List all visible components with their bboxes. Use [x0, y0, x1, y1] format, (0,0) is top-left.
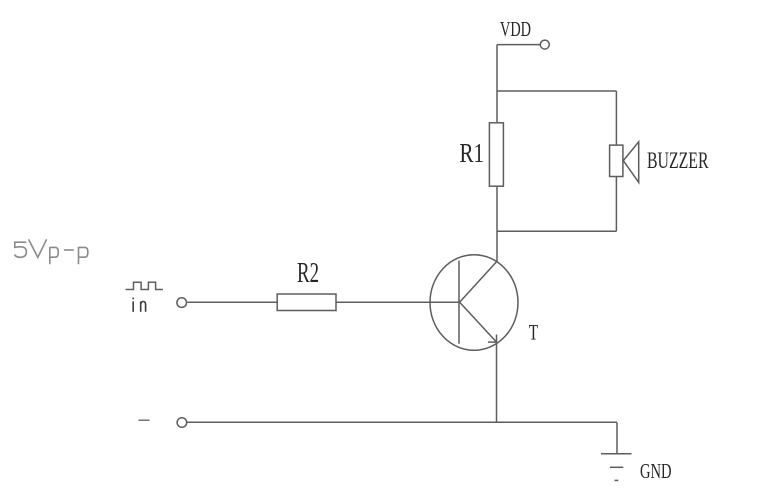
wire top rail — [497, 90, 616, 92]
wire bottom rail of parallel section — [497, 230, 616, 232]
wire R1 bottom to collector — [496, 186, 498, 262]
wire R2 to base — [336, 301, 459, 303]
svg-text:GND: GND — [640, 459, 672, 483]
svg-text:R2: R2 — [297, 258, 319, 289]
label 5Vp-p — [15, 239, 88, 264]
terminal circle VDD — [540, 40, 549, 49]
buzzer BZ1 — [610, 142, 639, 183]
minus sign — [139, 419, 150, 421]
wire GND drop — [616, 422, 618, 454]
wire input to R2 — [187, 301, 277, 303]
terminal circle minus — [177, 418, 187, 428]
label in — [133, 298, 145, 312]
transistor T — [430, 255, 518, 351]
svg-text:VDD: VDD — [500, 17, 531, 41]
wire bottom rail — [187, 421, 617, 423]
ground — [601, 454, 632, 481]
wire buzzer branch bottom — [615, 177, 617, 232]
wire buzzer branch top — [615, 91, 617, 145]
svg-text:T: T — [529, 319, 539, 344]
resistor R1 — [489, 123, 503, 186]
terminal circle input — [177, 298, 187, 308]
wire emitter vertical — [496, 335, 498, 423]
resistor R2 — [277, 294, 336, 311]
square wave symbol — [126, 282, 163, 289]
wire VDD vertical — [496, 45, 498, 123]
svg-text:R1: R1 — [460, 138, 485, 168]
svg-text:BUZZER: BUZZER — [647, 148, 709, 173]
wire VDD stub — [497, 44, 540, 46]
